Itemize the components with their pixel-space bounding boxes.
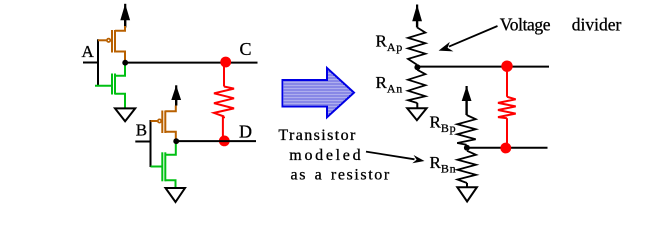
svg-text:modeled: modeled: [289, 147, 363, 164]
channel: [164, 111, 166, 134]
gate lead: [95, 85, 112, 87]
wire D horizontal: [176, 140, 256, 142]
ground (chain A): [407, 108, 426, 120]
node output B junction dot: [173, 138, 179, 144]
gate bubble: [158, 119, 161, 122]
annotation arrow to R_Bn: [366, 152, 425, 164]
node output A junction dot: [122, 60, 128, 66]
node on wire 2 junction dot: [464, 145, 470, 151]
source lead: [165, 106, 176, 112]
VDD arrow (inverter A): [120, 4, 130, 28]
svg-text:as a resistor: as a resistor: [291, 166, 391, 183]
gate plate: [161, 152, 163, 181]
resistor red (transistor modeled) zigzag: [498, 97, 516, 118]
resistor R_Ap: [408, 27, 425, 64]
gate lead: [151, 120, 158, 122]
transistor PMOS (inverter B): [151, 106, 176, 142]
gate plate: [111, 30, 113, 53]
resistor red (transistor modeled) top lead: [506, 70, 508, 97]
source lead: [115, 26, 125, 31]
block arrow symbol: [283, 68, 355, 117]
resistor red bottom lead: [506, 118, 508, 143]
source lead: [115, 94, 125, 108]
gate lead: [151, 166, 163, 168]
resistor R_Bn: [458, 151, 477, 183]
annotation text: Transistor modeled as a resistor: [278, 127, 390, 184]
wire input B horizontal: [135, 141, 150, 143]
VDD arrow (chain B): [462, 86, 472, 115]
VDD arrow (inverter B): [171, 85, 181, 105]
svg-text:D: D: [239, 121, 252, 141]
node on wire 1 junction dot: [414, 64, 420, 70]
resistor R_Bp: [457, 115, 476, 145]
ground (inverter A): [115, 108, 135, 121]
wire 2 horizontal: [467, 147, 548, 149]
wire input A vertical: [97, 39, 99, 86]
channel: [114, 74, 116, 95]
gate plate: [161, 111, 163, 134]
svg-text:A: A: [82, 42, 95, 61]
drain lead: [165, 132, 176, 141]
ground (inverter B): [166, 188, 186, 202]
transistor NMOS (inverter A): [95, 63, 125, 108]
node red dot on wire 1: [501, 60, 512, 71]
source lead: [165, 180, 175, 187]
wire input B vertical: [150, 120, 152, 167]
node red dot on wire 2: [500, 143, 511, 154]
drain lead: [115, 52, 125, 63]
VDD arrow (chain A): [412, 5, 422, 28]
gate lead: [98, 39, 106, 41]
channel: [114, 30, 116, 53]
wire C horizontal: [125, 62, 258, 64]
gate plate: [111, 74, 113, 95]
wire R_An to ground: [416, 103, 418, 108]
transistor PMOS (inverter A): [98, 26, 125, 63]
wire input A horizontal: [83, 62, 98, 64]
transistor NMOS (inverter B): [151, 141, 176, 187]
gate bubble: [107, 39, 110, 42]
resistor (red, between C and D): [214, 66, 234, 136]
drain lead: [115, 63, 125, 76]
ground (chain B): [457, 187, 477, 201]
wire R_Bn to ground: [466, 183, 468, 187]
resistor R_An: [408, 70, 425, 103]
node D red dot: [219, 136, 230, 147]
svg-text:Transistor: Transistor: [278, 127, 356, 144]
node C red dot: [220, 57, 231, 68]
svg-text:B: B: [136, 121, 147, 140]
drain lead: [165, 141, 176, 155]
annotation arrow to R_Ap: [439, 26, 498, 51]
svg-text:C: C: [240, 39, 252, 59]
channel: [164, 152, 166, 181]
wire 1 horizontal: [417, 66, 549, 68]
